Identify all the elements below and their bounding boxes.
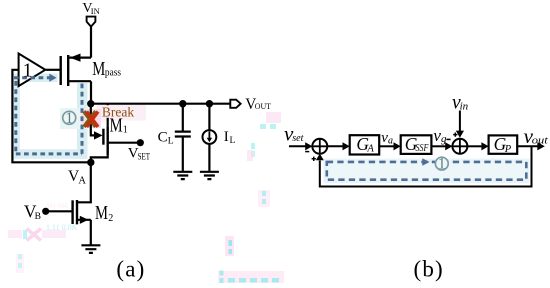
svg-text:1: 1 [65, 110, 73, 127]
svg-text:M: M [95, 203, 108, 224]
svg-text:2: 2 [108, 213, 113, 224]
svg-text:1: 1 [23, 60, 33, 81]
svg-text:pass: pass [105, 66, 121, 78]
svg-text:set: set [292, 133, 304, 144]
svg-text:(b): (b) [414, 257, 444, 282]
svg-text:A: A [366, 143, 374, 154]
svg-text:(a): (a) [116, 257, 145, 282]
svg-text:Break: Break [102, 105, 134, 120]
svg-text:C: C [158, 129, 168, 145]
svg-text:1.11 0.0K: 1.11 0.0K [46, 223, 78, 232]
svg-text:P: P [504, 144, 512, 155]
svg-text:OUT: OUT [255, 101, 272, 111]
svg-text:out: out [532, 134, 549, 146]
svg-text:I: I [224, 129, 229, 145]
svg-text:1: 1 [123, 125, 128, 136]
svg-text:M: M [92, 59, 105, 80]
svg-text:a: a [388, 135, 393, 146]
svg-text:L: L [168, 136, 174, 146]
svg-text:g: g [441, 133, 447, 145]
svg-text:SSF: SSF [416, 143, 430, 154]
svg-text:SET: SET [138, 151, 151, 161]
svg-text:IN: IN [91, 6, 100, 16]
svg-text:1: 1 [438, 156, 446, 173]
svg-text:A: A [78, 176, 86, 187]
svg-text:B: B [35, 212, 41, 222]
svg-text:H4 608: H4 608 [47, 202, 68, 210]
svg-text:L: L [230, 136, 236, 146]
svg-text:in: in [460, 101, 469, 113]
